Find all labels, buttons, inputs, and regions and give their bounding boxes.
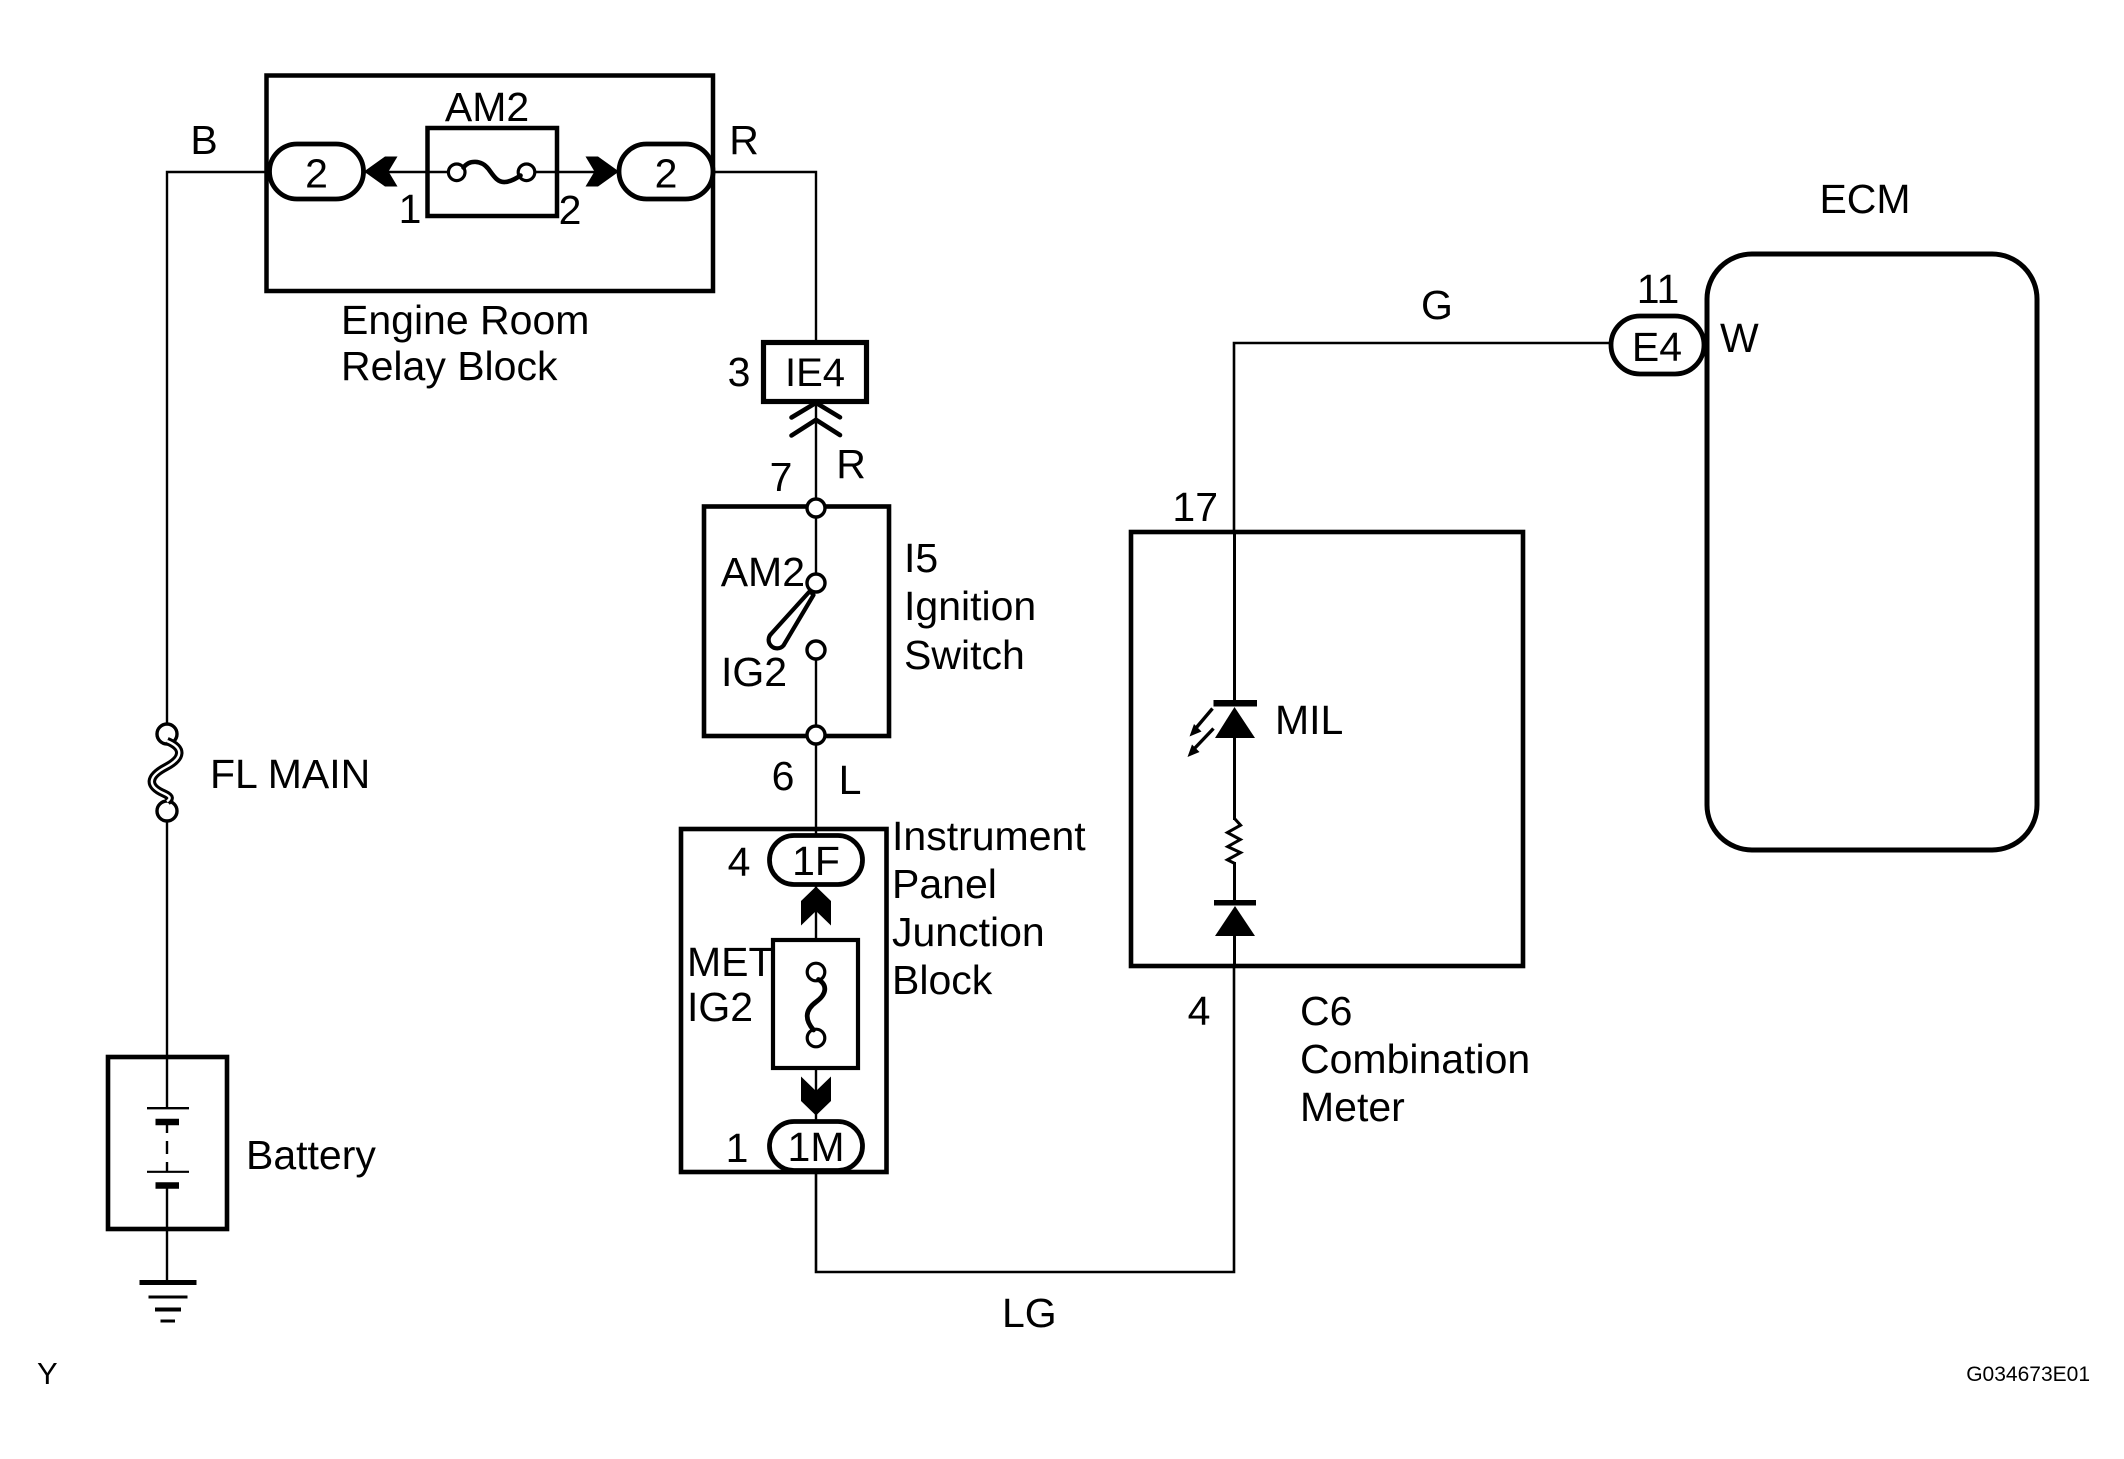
svg-text:MET: MET — [687, 939, 774, 985]
svg-text:G: G — [1421, 282, 1453, 328]
svg-text:G034673E01: G034673E01 — [1966, 1363, 2090, 1386]
fuse AM2 element — [448, 164, 465, 181]
svg-text:W: W — [1720, 315, 1759, 361]
connector 1M stadium — [770, 1122, 863, 1171]
svg-text:Battery: Battery — [246, 1132, 376, 1178]
ignition switch I5 box — [704, 507, 889, 737]
connector 1F stadium — [770, 836, 863, 885]
switch internal wire bottom — [815, 659, 817, 726]
svg-text:R: R — [729, 117, 759, 163]
svg-text:L: L — [839, 757, 862, 803]
svg-text:IG2: IG2 — [721, 649, 787, 695]
svg-text:Panel: Panel — [892, 861, 997, 907]
battery box — [108, 1057, 227, 1229]
wire B (battery to relay block) — [167, 172, 270, 724]
arrow down (into 1M) — [801, 1077, 831, 1116]
svg-text:AM2: AM2 — [721, 549, 805, 595]
svg-text:3: 3 — [728, 349, 751, 395]
wire inside relay block left — [364, 171, 449, 173]
svg-text:E4: E4 — [1632, 324, 1682, 370]
switch lever — [769, 591, 814, 648]
svg-text:R: R — [836, 441, 866, 487]
svg-text:Combination: Combination — [1300, 1036, 1530, 1082]
svg-text:7: 7 — [770, 454, 793, 500]
svg-text:6: 6 — [772, 753, 795, 799]
wire (IE4 to ignition switch) — [815, 402, 817, 508]
connector 2 (right stadium) — [619, 144, 713, 199]
diode (meter internal) — [1214, 900, 1256, 906]
ground — [140, 1280, 197, 1285]
switch terminal AM2 — [807, 574, 825, 592]
svg-text:IE4: IE4 — [785, 351, 845, 395]
fusible link FL MAIN — [157, 724, 177, 744]
switch terminal (pin 7, top) — [807, 499, 825, 517]
connector chevrons — [792, 403, 841, 418]
connector IE4 box — [764, 343, 867, 402]
svg-text:Instrument: Instrument — [892, 813, 1086, 859]
instrument panel junction block box — [681, 829, 887, 1172]
fuse MET IG2 element — [807, 963, 825, 981]
wire R (relay block to IE4) — [713, 172, 816, 342]
svg-text:Engine Room: Engine Room — [341, 297, 589, 343]
fuse MET IG2 box — [773, 940, 858, 1068]
svg-text:17: 17 — [1172, 484, 1218, 530]
wire inside relay block right — [534, 171, 620, 173]
connector 2 (left stadium) — [270, 144, 364, 199]
svg-text:Junction: Junction — [892, 909, 1045, 955]
svg-text:IG2: IG2 — [687, 984, 753, 1030]
svg-text:1F: 1F — [792, 838, 840, 884]
svg-text:1: 1 — [726, 1125, 749, 1171]
svg-text:Switch: Switch — [904, 632, 1025, 678]
battery symbol — [166, 1059, 168, 1107]
MIL light arrows — [1196, 709, 1213, 729]
combination meter C6 box — [1131, 532, 1523, 966]
wire (FL MAIN to battery) — [166, 821, 168, 1057]
fuse AM2 box — [428, 128, 558, 216]
wire LG (junction block to combination meter) — [816, 967, 1234, 1272]
connector E4 stadium — [1611, 316, 1704, 374]
wire 1F to fuse — [815, 884, 817, 940]
svg-text:Relay Block: Relay Block — [341, 343, 558, 389]
svg-text:11: 11 — [1637, 266, 1680, 312]
resistor (meter internal) — [1227, 819, 1240, 864]
wire fuse to 1M — [815, 1068, 817, 1124]
arrow up (into 1F) — [801, 887, 831, 926]
svg-text:FL MAIN: FL MAIN — [210, 751, 370, 797]
svg-text:1: 1 — [399, 186, 422, 232]
svg-text:4: 4 — [728, 839, 751, 885]
switch terminal (pin 6, bottom) — [807, 726, 825, 744]
svg-text:2: 2 — [655, 151, 678, 197]
svg-text:Ignition: Ignition — [904, 583, 1036, 629]
svg-text:Block: Block — [892, 957, 993, 1003]
arrow into connector (left, pointing left) — [364, 157, 398, 187]
switch terminal IG2 — [807, 641, 825, 659]
arrow into connector (right, pointing right) — [586, 157, 620, 187]
svg-text:MIL: MIL — [1275, 697, 1343, 743]
svg-text:B: B — [190, 117, 217, 163]
svg-text:1M: 1M — [788, 1124, 845, 1170]
svg-text:I5: I5 — [904, 535, 938, 581]
Engine Room Relay Block box — [267, 76, 714, 292]
switch internal wire top — [815, 517, 817, 574]
svg-text:C6: C6 — [1300, 988, 1352, 1034]
svg-text:AM2: AM2 — [445, 84, 529, 130]
svg-text:4: 4 — [1188, 988, 1211, 1034]
ECM box — [1707, 254, 2037, 850]
svg-text:LG: LG — [1002, 1290, 1057, 1336]
wire inside combination meter — [1233, 532, 1236, 700]
wire G (meter to ECM E4) — [1234, 343, 1611, 532]
svg-text:Meter: Meter — [1300, 1084, 1405, 1130]
svg-text:ECM: ECM — [1819, 176, 1910, 222]
LED MIL — [1214, 700, 1258, 707]
svg-text:2: 2 — [305, 151, 328, 197]
svg-text:Y: Y — [37, 1356, 58, 1391]
wire L (switch to junction block) — [815, 744, 817, 838]
svg-text:2: 2 — [559, 187, 582, 233]
